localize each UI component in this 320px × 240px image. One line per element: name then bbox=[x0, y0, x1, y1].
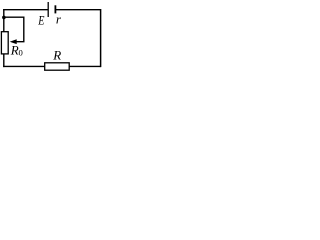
rheostat R0 box bbox=[1, 32, 8, 54]
wire bottom-left segment bbox=[3, 65, 45, 67]
wire top-right segment bbox=[55, 9, 101, 11]
junction node dot bbox=[2, 16, 6, 20]
wire left lower segment bbox=[3, 54, 5, 67]
rheostat slider arrowhead bbox=[10, 39, 17, 44]
svg-text:r: r bbox=[56, 12, 62, 27]
wire left upper segment bbox=[3, 9, 5, 32]
rheostat slider wire bbox=[4, 17, 24, 42]
svg-text:E: E bbox=[37, 14, 44, 28]
wire top-left segment bbox=[3, 9, 48, 11]
svg-text:R: R bbox=[52, 48, 61, 63]
battery long plate (positive terminal) bbox=[47, 2, 49, 17]
svg-text:R0: R0 bbox=[10, 43, 23, 58]
wire right side bbox=[100, 9, 102, 67]
wire bottom-right segment bbox=[69, 65, 101, 67]
battery short plate (negative terminal) bbox=[54, 5, 56, 13]
resistor R box bbox=[45, 63, 69, 70]
